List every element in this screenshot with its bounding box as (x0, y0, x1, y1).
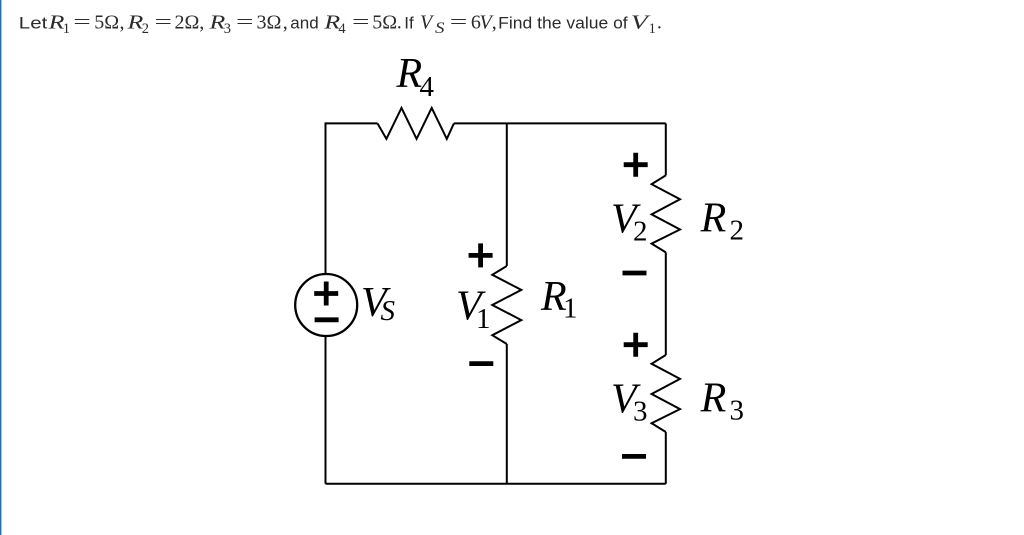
svg-text:2: 2 (142, 21, 149, 37)
svg-text:=: = (73, 11, 91, 33)
svg-text:R: R (208, 11, 225, 33)
svg-text:3Ω: 3Ω (257, 11, 282, 33)
V1 plus sign (469, 243, 493, 267)
svg-text:5Ω: 5Ω (372, 11, 397, 33)
wire right rail lower (665, 432, 667, 484)
svg-text:R: R (126, 11, 143, 33)
resistor R1 zigzag (492, 266, 521, 344)
svg-text:S: S (381, 295, 396, 327)
svg-text:1: 1 (476, 303, 491, 335)
VS plus sign (314, 282, 338, 306)
svg-text:R: R (700, 196, 727, 242)
svg-text:R: R (396, 51, 423, 97)
wire left rail lower: below source (325, 336, 327, 484)
svg-text:1: 1 (649, 21, 656, 37)
svg-text:,: , (492, 11, 497, 33)
V3 minus sign (622, 454, 646, 459)
V1 minus sign (469, 361, 493, 366)
resistor R4 zigzag (378, 108, 454, 139)
svg-text:S: S (435, 20, 445, 37)
svg-text:4: 4 (338, 21, 346, 37)
wire top-left: from left rail corner to R4 (326, 123, 378, 274)
svg-text:,: , (120, 11, 125, 33)
wire middle branch upper (506, 123, 508, 266)
svg-text:V: V (420, 11, 435, 33)
V2 plus sign (624, 153, 648, 177)
svg-text:1: 1 (63, 21, 70, 37)
svg-text:.: . (397, 11, 402, 33)
V3 plus sign (624, 333, 648, 357)
svg-text:3: 3 (633, 395, 648, 427)
wire top-right: from R4 to right rail corner (454, 122, 666, 124)
svg-text:3: 3 (730, 395, 745, 427)
voltage source VS circle (295, 274, 357, 336)
svg-text:5Ω: 5Ω (94, 11, 119, 33)
svg-text:,: , (199, 11, 204, 33)
svg-text:=: = (352, 11, 370, 33)
svg-text:,: , (283, 11, 288, 33)
svg-text:=: = (450, 11, 468, 33)
svg-text:3: 3 (224, 21, 231, 37)
VS minus sign (315, 317, 339, 322)
wire middle branch lower (506, 344, 508, 484)
svg-text:2: 2 (633, 215, 648, 247)
svg-text:2: 2 (730, 215, 745, 247)
resistor R3 zigzag (652, 355, 680, 432)
svg-text:.: . (657, 11, 662, 33)
svg-text:Let: Let (19, 13, 48, 32)
wire bottom rail (326, 483, 666, 485)
svg-text:2Ω: 2Ω (175, 11, 200, 33)
svg-text:R: R (700, 376, 727, 422)
svg-text:4: 4 (420, 71, 435, 103)
svg-text:If: If (404, 13, 414, 32)
V2 minus sign (623, 271, 647, 276)
svg-text:=: = (236, 11, 254, 33)
svg-text:and: and (290, 13, 318, 32)
blue left page border (0, 0, 1, 535)
svg-text:=: = (155, 11, 173, 33)
resistor R2 zigzag (652, 175, 680, 252)
wire right rail middle: between R2 and R3 (665, 252, 667, 355)
wire right rail upper (665, 123, 667, 175)
svg-text:Find the value of: Find the value of (498, 13, 628, 32)
svg-text:1: 1 (563, 292, 578, 324)
